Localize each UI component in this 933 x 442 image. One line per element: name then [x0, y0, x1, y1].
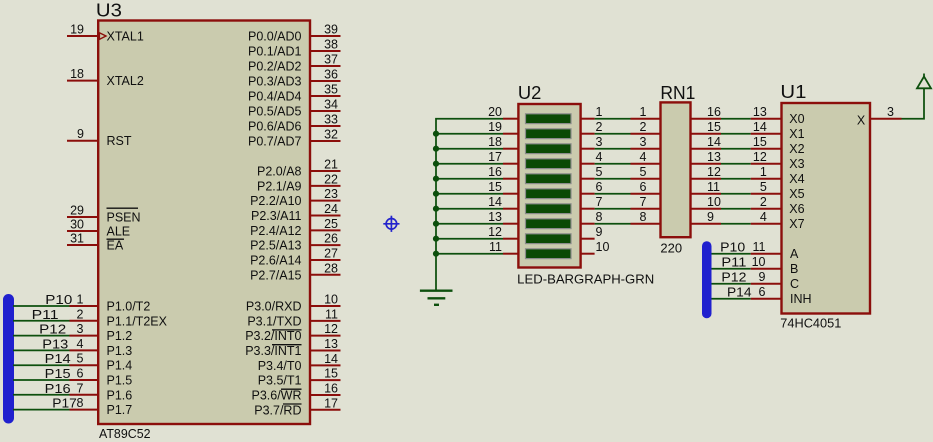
wire P12 to U1 C: [712, 283, 751, 285]
wire P15 to U3: [13, 379, 70, 381]
wire P11 to U3: [13, 320, 70, 322]
svg-text:5: 5: [760, 180, 767, 194]
RN1 pin 2 stub: [631, 133, 661, 135]
U3 pin 24 stub: [310, 214, 341, 216]
svg-text:P1.4: P1.4: [107, 359, 133, 373]
U3 pin 35 stub: [310, 95, 341, 97]
wire P14 to U1 INH: [712, 298, 751, 300]
svg-text:P3.7/RD: P3.7/RD: [254, 403, 301, 417]
wire U2 pin 5 to RN1 pin 5: [595, 178, 631, 180]
svg-text:X2: X2: [789, 142, 804, 156]
U3 pin 32 stub: [310, 140, 341, 142]
svg-text:21: 21: [324, 158, 338, 172]
U2 pin 14 stub: [503, 208, 518, 210]
svg-text:U2: U2: [518, 82, 542, 103]
svg-text:9: 9: [596, 225, 603, 239]
svg-text:A: A: [790, 247, 799, 261]
svg-text:13: 13: [753, 105, 767, 119]
resistor network RN1 body: [661, 102, 691, 237]
svg-text:16: 16: [488, 165, 502, 179]
U3 pin 30 ALE stub: [67, 230, 98, 232]
svg-text:P10: P10: [720, 240, 745, 255]
svg-text:P0.4/AD4: P0.4/AD4: [248, 90, 302, 104]
svg-text:X7: X7: [789, 217, 804, 231]
junction node at bus row 15: [433, 191, 439, 197]
svg-text:X4: X4: [789, 172, 804, 186]
U3 pin 27 stub: [310, 259, 341, 261]
svg-text:17: 17: [488, 150, 502, 164]
U1 pin 6 stub: [751, 298, 782, 300]
svg-text:25: 25: [324, 217, 338, 231]
svg-text:X3: X3: [789, 157, 804, 171]
svg-text:P1.7: P1.7: [107, 403, 133, 417]
svg-text:3: 3: [596, 135, 603, 149]
LED bar 5: [526, 174, 572, 184]
op-amp U3 body (AT89C52 microcontroller): [98, 21, 310, 425]
svg-text:X1: X1: [789, 127, 804, 141]
U2 pin 1 stub: [581, 118, 595, 120]
svg-text:P3.3/INT1: P3.3/INT1: [245, 344, 301, 358]
wire P13 to U3: [13, 349, 70, 351]
wire RN1 pin 14 to U1: [721, 148, 751, 150]
svg-text:8: 8: [640, 210, 647, 224]
svg-text:14: 14: [707, 135, 721, 149]
LED bar 9: [526, 234, 572, 244]
svg-text:37: 37: [324, 53, 338, 67]
svg-text:P0.7/AD7: P0.7/AD7: [248, 135, 302, 149]
RN1 pin 7 stub: [631, 208, 661, 210]
wire U1 X to power: [902, 88, 925, 118]
RN1 pin 5 stub: [631, 178, 661, 180]
svg-text:18: 18: [70, 67, 84, 81]
LED bar 1: [526, 114, 572, 124]
wire P10 to U1 A: [712, 253, 751, 255]
U2 pin 15 stub: [503, 193, 518, 195]
U3 pin 26 stub: [310, 244, 341, 246]
svg-text:P2.2/A10: P2.2/A10: [250, 194, 301, 208]
U1 pin 15 stub: [751, 148, 782, 150]
svg-text:XTAL2: XTAL2: [107, 74, 144, 88]
ground symbol: [420, 291, 453, 305]
svg-text:P3.6/WR: P3.6/WR: [251, 388, 301, 402]
svg-text:12: 12: [753, 150, 767, 164]
RN1 pin 14 stub: [691, 148, 722, 150]
svg-text:PSEN: PSEN: [107, 211, 141, 225]
svg-text:5: 5: [77, 352, 84, 366]
svg-text:P0.5/AD5: P0.5/AD5: [248, 105, 302, 119]
wire bus to U2 pin 18: [436, 148, 503, 150]
svg-text:26: 26: [324, 232, 338, 246]
svg-text:14: 14: [753, 120, 767, 134]
U3 pin 39 stub: [310, 35, 341, 37]
U3 pin 28 stub: [310, 274, 341, 276]
wire RN1 pin 16 to U1: [721, 118, 751, 120]
svg-text:24: 24: [324, 202, 338, 216]
svg-text:11: 11: [325, 307, 338, 321]
svg-text:220: 220: [660, 240, 682, 255]
U2 pin 2 stub: [581, 133, 595, 135]
svg-text:38: 38: [324, 38, 338, 52]
wire bus to U2 pin 13: [436, 223, 503, 225]
svg-text:P1.2: P1.2: [107, 329, 133, 343]
U3 pin 2 stub: [70, 320, 99, 322]
U2 pin 10 stub: [581, 253, 595, 255]
U3 pin 12 stub: [310, 335, 341, 337]
svg-text:4: 4: [77, 337, 84, 351]
U3 pin 29 PSEN stub: [67, 216, 98, 218]
svg-text:P2.5/A13: P2.5/A13: [250, 239, 301, 253]
svg-text:6: 6: [759, 285, 766, 299]
svg-text:P13: P13: [42, 336, 68, 351]
svg-text:P12: P12: [721, 270, 746, 285]
U3 pin 37 stub: [310, 65, 341, 67]
svg-text:1: 1: [596, 105, 603, 119]
RN1 pin 15 stub: [691, 133, 722, 135]
LED bar 10: [526, 249, 572, 259]
RN1 pin 16 stub: [691, 118, 722, 120]
svg-text:29: 29: [70, 204, 84, 218]
RD overline: [283, 403, 302, 405]
origin marker (blue crosshair): [383, 216, 399, 232]
svg-text:1: 1: [640, 105, 647, 119]
svg-text:15: 15: [488, 180, 502, 194]
U3 pin 10 stub: [310, 305, 341, 307]
wire P12 to U3: [13, 335, 70, 337]
svg-text:14: 14: [488, 195, 502, 209]
svg-text:10: 10: [707, 195, 721, 209]
svg-text:P11: P11: [32, 307, 59, 322]
svg-text:9: 9: [707, 210, 714, 224]
U3 pin 1 stub: [70, 305, 99, 307]
svg-text:4: 4: [596, 150, 603, 164]
WR overline: [281, 388, 302, 390]
svg-text:19: 19: [70, 23, 84, 37]
svg-text:B: B: [790, 262, 798, 276]
svg-text:15: 15: [324, 367, 338, 381]
U1 pin 12 stub: [751, 163, 782, 165]
svg-text:35: 35: [324, 83, 338, 97]
wire U2 pin 6 to RN1 pin 6: [595, 193, 631, 195]
U1 pin 3 stub: [870, 118, 902, 120]
svg-text:P3.0/RXD: P3.0/RXD: [246, 300, 302, 314]
svg-text:4: 4: [760, 210, 767, 224]
svg-text:3: 3: [77, 322, 84, 336]
wire U2 pin 4 to RN1 pin 4: [595, 163, 631, 165]
svg-text:8: 8: [596, 210, 603, 224]
U3 pin 13 stub: [310, 349, 341, 351]
svg-text:2: 2: [760, 195, 767, 209]
U3 pin 15 stub: [310, 379, 341, 381]
junction node at bus row 11: [433, 251, 439, 257]
wire bus to U2 pin 19: [436, 133, 503, 135]
svg-text:6: 6: [640, 180, 647, 194]
svg-text:RN1: RN1: [660, 82, 695, 103]
U2 pin 8 stub: [581, 223, 595, 225]
junction node at bus row 19: [433, 131, 439, 137]
svg-text:12: 12: [707, 165, 721, 179]
junction node at bus row 14: [433, 206, 439, 212]
svg-text:15: 15: [707, 120, 721, 134]
svg-text:8: 8: [77, 396, 84, 410]
U1 pin 13 stub: [751, 118, 782, 120]
wire RN1 pin 13 to U1: [721, 163, 751, 165]
svg-text:P3.5/T1: P3.5/T1: [258, 374, 302, 388]
svg-text:P15: P15: [45, 366, 71, 381]
svg-text:39: 39: [324, 23, 338, 37]
svg-text:P0.0/AD0: P0.0/AD0: [248, 30, 302, 44]
wire: U2 left bus vertical: [436, 119, 503, 290]
svg-text:RST: RST: [107, 134, 132, 148]
U3 pin 17 stub: [310, 409, 341, 411]
svg-text:34: 34: [324, 98, 338, 112]
U2 pin 19 stub: [503, 133, 518, 135]
svg-text:X: X: [857, 113, 866, 127]
svg-text:3: 3: [887, 105, 894, 119]
RN1 pin 13 stub: [691, 163, 722, 165]
svg-text:U1: U1: [780, 81, 806, 102]
svg-text:P2.7/A15: P2.7/A15: [250, 268, 301, 282]
wire U2 pin 1 to RN1 pin 1: [595, 118, 631, 120]
svg-text:12: 12: [488, 225, 502, 239]
svg-text:2: 2: [77, 307, 84, 321]
U3 pin 6 stub: [70, 379, 99, 381]
svg-text:10: 10: [596, 240, 610, 254]
U2 pin 13 stub: [503, 223, 518, 225]
wire RN1 pin 15 to U1: [721, 133, 751, 135]
svg-text:18: 18: [488, 135, 502, 149]
svg-text:P3.1/TXD: P3.1/TXD: [247, 314, 301, 328]
svg-text:10: 10: [752, 255, 766, 269]
bus terminal strip (blue) left of U3: [3, 294, 14, 424]
svg-text:31: 31: [70, 232, 84, 246]
RN1 pin 9 stub: [691, 223, 722, 225]
svg-text:P17: P17: [52, 396, 77, 411]
LED bargraph U2 body: [518, 104, 580, 268]
U3 pin 16 stub: [310, 394, 341, 396]
svg-text:13: 13: [488, 210, 502, 224]
svg-text:P1.3: P1.3: [107, 344, 133, 358]
U2 pin 3 stub: [581, 148, 595, 150]
svg-text:2: 2: [640, 120, 647, 134]
svg-text:3: 3: [640, 135, 647, 149]
RN1 pin 6 stub: [631, 193, 661, 195]
svg-text:P0.6/AD6: P0.6/AD6: [248, 120, 302, 134]
INT1 overline: [272, 344, 302, 346]
U1 pin 14 stub: [751, 133, 782, 135]
U3 pin 33 stub: [310, 125, 341, 127]
U2 pin 12 stub: [503, 238, 518, 240]
bus terminal strip (blue) left of U1: [702, 241, 712, 318]
svg-text:INH: INH: [790, 292, 812, 306]
svg-text:36: 36: [324, 68, 338, 82]
U2 pin 5 stub: [581, 178, 595, 180]
U3 pin 23 stub: [310, 200, 341, 202]
wire P17 to U3: [13, 409, 70, 411]
svg-text:5: 5: [596, 165, 603, 179]
PSEN overline: [107, 207, 139, 209]
U3 pin 3 stub: [70, 335, 99, 337]
U3 pin 21 stub: [310, 170, 341, 172]
U3 pin 22 stub: [310, 185, 341, 187]
svg-text:17: 17: [324, 396, 338, 410]
U2 pin 6 stub: [581, 193, 595, 195]
wire P14 to U3: [13, 364, 70, 366]
svg-text:P2.4/A12: P2.4/A12: [250, 224, 301, 238]
svg-text:P2.1/A9: P2.1/A9: [257, 179, 302, 193]
U2 pin 16 stub: [503, 178, 518, 180]
junction node at bus row 13: [433, 221, 439, 227]
U3 pin 14 stub: [310, 364, 341, 366]
RN1 pin 4 stub: [631, 163, 661, 165]
svg-text:20: 20: [488, 105, 502, 119]
svg-text:P1.5: P1.5: [107, 374, 133, 388]
svg-text:P2.0/A8: P2.0/A8: [257, 165, 302, 179]
svg-text:13: 13: [324, 337, 338, 351]
power symbol (arrow up): [923, 74, 925, 78]
U3 pin 11 stub: [310, 320, 341, 322]
U2 pin 4 stub: [581, 163, 595, 165]
svg-text:P1.0/T2: P1.0/T2: [107, 300, 151, 314]
U3 pin 8 stub: [70, 409, 99, 411]
svg-text:33: 33: [324, 113, 338, 127]
svg-text:7: 7: [640, 195, 647, 209]
U3 pin 25 stub: [310, 229, 341, 231]
svg-text:C: C: [790, 277, 799, 291]
svg-text:1: 1: [760, 165, 767, 179]
wire RN1 pin 10 to U1: [721, 208, 751, 210]
wire P11 to U1 B: [712, 268, 751, 270]
svg-text:X6: X6: [789, 202, 804, 216]
svg-text:EA: EA: [107, 239, 124, 253]
RN1 pin 1 stub: [631, 118, 661, 120]
U3 pin 7 stub: [70, 394, 99, 396]
RN1 pin 11 stub: [691, 193, 722, 195]
RN1 pin 3 stub: [631, 148, 661, 150]
svg-text:4: 4: [640, 150, 647, 164]
svg-text:7: 7: [596, 195, 603, 209]
svg-text:P11: P11: [721, 255, 746, 270]
svg-text:P3.2/INT0: P3.2/INT0: [245, 329, 301, 343]
svg-text:1: 1: [77, 293, 84, 307]
junction node at bus row 18: [433, 146, 439, 152]
multiplexer U1 body (74HC4051): [782, 103, 871, 314]
U1 pin 9 stub: [751, 283, 782, 285]
U3 pin 4 stub: [70, 349, 99, 351]
junction node at bus row 16: [433, 176, 439, 182]
LED bar 7: [526, 204, 572, 214]
svg-text:28: 28: [324, 261, 338, 275]
wire bus to U2 pin 11: [436, 253, 503, 255]
svg-text:13: 13: [707, 150, 721, 164]
U2 pin 17 stub: [503, 163, 518, 165]
svg-text:LED-BARGRAPH-GRN: LED-BARGRAPH-GRN: [517, 272, 654, 286]
svg-text:9: 9: [759, 270, 766, 284]
U2 pin 9 stub: [581, 238, 595, 240]
wire U2 pin 2 to RN1 pin 2: [595, 133, 631, 135]
LED bar 4: [526, 159, 572, 169]
svg-text:ALE: ALE: [107, 225, 131, 239]
RN1 pin 12 stub: [691, 178, 722, 180]
LED bar 3: [526, 144, 572, 154]
U3 XTAL1 clock arrow: [99, 33, 106, 40]
svg-text:P0.2/AD2: P0.2/AD2: [248, 60, 302, 74]
LED bar 2: [526, 129, 572, 139]
svg-text:16: 16: [324, 381, 338, 395]
svg-text:P14: P14: [45, 351, 71, 366]
svg-text:23: 23: [324, 187, 338, 201]
wire bus to U2 pin 16: [436, 178, 503, 180]
svg-text:P0.3/AD3: P0.3/AD3: [248, 75, 302, 89]
svg-text:P1.1/T2EX: P1.1/T2EX: [107, 314, 168, 328]
RN1 pin 8 stub: [631, 223, 661, 225]
svg-text:XTAL1: XTAL1: [107, 30, 144, 44]
LED bar 6: [526, 189, 572, 199]
U3 pin 19 XTAL1 stub: [67, 35, 98, 37]
wire bus to U2 pin 14: [436, 208, 503, 210]
wire bus to U2 pin 15: [436, 193, 503, 195]
svg-text:X5: X5: [789, 187, 804, 201]
junction node at bus row 12: [433, 236, 439, 242]
U3 pin 31 EA stub: [67, 244, 98, 246]
EA overline: [107, 238, 125, 240]
svg-text:9: 9: [77, 127, 84, 141]
U1 pin 4 stub: [751, 223, 782, 225]
wire RN1 pin 11 to U1: [721, 193, 751, 195]
U1 pin 1 stub: [751, 178, 782, 180]
junction node at bus row 17: [433, 161, 439, 167]
U1 pin 11 stub: [751, 253, 782, 255]
svg-text:P3.4/T0: P3.4/T0: [258, 359, 302, 373]
U3 pin 5 stub: [70, 364, 99, 366]
wire bus to U2 pin 17: [436, 163, 503, 165]
wire U2 pin 7 to RN1 pin 7: [595, 208, 631, 210]
svg-text:P12: P12: [39, 322, 66, 337]
svg-text:5: 5: [640, 165, 647, 179]
RN1 pin 10 stub: [691, 208, 722, 210]
U3 pin 38 stub: [310, 50, 341, 52]
U3 pin 34 stub: [310, 110, 341, 112]
U1 pin 5 stub: [751, 193, 782, 195]
U1 pin 2 stub: [751, 208, 782, 210]
svg-text:X0: X0: [789, 112, 804, 126]
svg-text:AT89C52: AT89C52: [99, 427, 151, 441]
svg-text:32: 32: [324, 128, 338, 142]
svg-text:11: 11: [489, 240, 502, 254]
svg-text:P16: P16: [45, 381, 71, 396]
svg-text:19: 19: [488, 120, 502, 134]
U2 pin 11 stub: [503, 253, 518, 255]
svg-text:10: 10: [324, 293, 338, 307]
wire bus to U2 pin 12: [436, 238, 503, 240]
svg-text:P0.1/AD1: P0.1/AD1: [248, 45, 302, 59]
svg-text:30: 30: [70, 218, 84, 232]
wire U2 pin 3 to RN1 pin 3: [595, 148, 631, 150]
svg-text:7: 7: [77, 381, 84, 395]
svg-text:P10: P10: [45, 292, 72, 307]
U3 pin 18 XTAL2 stub: [67, 80, 98, 82]
svg-text:15: 15: [753, 135, 767, 149]
wire P16 to U3: [13, 394, 70, 396]
svg-text:22: 22: [324, 172, 338, 186]
U2 pin 7 stub: [581, 208, 595, 210]
svg-text:6: 6: [596, 180, 603, 194]
svg-text:P2.3/A11: P2.3/A11: [251, 209, 302, 223]
U1 pin 10 stub: [751, 268, 782, 270]
U3 pin 9 RST stub: [67, 140, 98, 142]
wire RN1 pin 9 to U1: [721, 223, 751, 225]
wire RN1 pin 12 to U1: [721, 178, 751, 180]
svg-text:74HC4051: 74HC4051: [780, 317, 841, 331]
